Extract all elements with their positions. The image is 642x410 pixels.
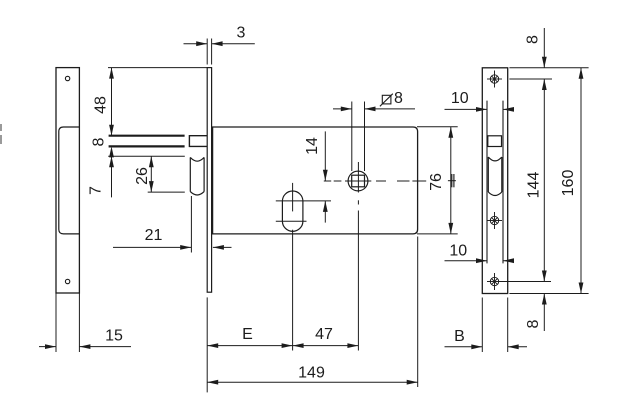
dimension 10 top: [445, 107, 515, 112]
spindle follower circle: [348, 171, 368, 191]
dimension 8 bottom right: [542, 294, 547, 332]
right view: slot left line: [486, 101, 488, 264]
svg-text:E: E: [242, 326, 253, 343]
dimension 8 arrows (latch height): [109, 146, 114, 197]
dimension B: [445, 298, 528, 353]
left view: lock case edge (rounded inner contour): [59, 127, 80, 234]
left view: faceplate outer outline: [56, 68, 79, 293]
roller top extension line: [108, 155, 185, 157]
lock case outline: [213, 127, 418, 234]
dimension 8 top right: [542, 28, 547, 68]
dimension sq8 line: [333, 107, 415, 112]
oval vertical centerline: [292, 183, 294, 351]
svg-text:160: 160: [560, 170, 577, 197]
oval tangent line upper: [276, 200, 331, 202]
dimension 144: [542, 79, 547, 282]
spindle vertical centerline: [357, 162, 359, 351]
right view: bottom screw hole: [487, 273, 502, 290]
svg-text:10: 10: [451, 90, 469, 107]
dimension 26: [149, 156, 154, 192]
horizontal centerline: [324, 180, 426, 182]
svg-text:21: 21: [145, 227, 163, 244]
left view: extension line left: [55, 293, 57, 352]
svg-text:15: 15: [105, 328, 123, 345]
dimension 76 extension lines: [417, 127, 458, 234]
svg-text:14: 14: [304, 137, 321, 155]
oval tangent line lower: [276, 220, 307, 222]
dimension 21: [113, 245, 232, 250]
edge artifact marks: [0, 124, 2, 144]
left view: extension line right: [78, 293, 80, 352]
svg-text:B: B: [454, 328, 465, 345]
left view: bottom screw hole: [65, 279, 69, 283]
dimension 21 extension line: [190, 196, 192, 253]
spindle square hole 8mm: [352, 175, 365, 187]
svg-text:3: 3: [237, 25, 246, 42]
latch bolt head rectangle: [189, 136, 207, 147]
svg-text:48: 48: [93, 96, 110, 114]
right extension lines: [498, 68, 589, 294]
dimension 15 line: [39, 344, 131, 349]
svg-text:8: 8: [525, 35, 542, 44]
svg-text:8: 8: [91, 137, 108, 146]
right view: faceplate front outline: [482, 68, 507, 294]
svg-text:76: 76: [428, 173, 445, 191]
dimension 3 line: [184, 41, 255, 46]
cylinder oval hole: [282, 191, 303, 231]
svg-text:47: 47: [315, 326, 333, 343]
roller bolt side view: [190, 157, 204, 195]
latch bolt side view top line: [109, 135, 185, 137]
dimension 76: [448, 127, 453, 234]
plate thickness extension lines: [207, 39, 211, 65]
svg-text:26: 26: [134, 167, 151, 185]
dimension 160: [579, 68, 584, 294]
dimension 10 bottom: [445, 258, 515, 263]
dimension 48: [109, 68, 114, 136]
right view: roller front: [488, 157, 502, 196]
dimension 149: [207, 237, 418, 388]
svg-text:8: 8: [394, 90, 403, 107]
right view: latch front: [488, 136, 502, 147]
left view: top screw hole: [65, 76, 69, 80]
sq8 extension lines: [352, 102, 365, 172]
right view: middle screw hole: [487, 212, 502, 229]
roller bottom extension line: [148, 191, 185, 193]
svg-text:149: 149: [298, 364, 325, 381]
svg-text:10: 10: [449, 242, 467, 259]
center view: faceplate side (3mm plate): [207, 68, 211, 293]
svg-text:144: 144: [526, 172, 543, 199]
dimension 14: [323, 131, 328, 222]
latch bolt side view bottom line: [109, 145, 185, 147]
square symbol with slash: [380, 94, 393, 107]
centerline equals mark: [448, 174, 456, 187]
svg-text:8: 8: [525, 319, 542, 328]
right view: slot right line: [502, 101, 504, 264]
dimension E and 47: [207, 297, 358, 392]
right view: top screw hole: [487, 71, 502, 88]
svg-text:7: 7: [87, 186, 104, 195]
extension line from plate top (left): [108, 67, 207, 69]
